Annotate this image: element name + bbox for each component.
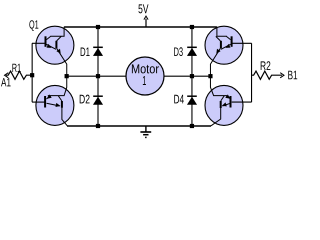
node B1 [288,71,297,80]
transistor top-right darlington (mirrored) [205,26,252,76]
junction dot motor row right transistor [208,74,212,78]
transistor bottom-right darlington (mirrored) [205,76,252,126]
label Q1 [29,20,38,31]
ground [140,126,151,137]
wire motor row right [164,75,211,77]
junction dot rail/D3 [190,25,194,29]
junction dot R1 tie [30,73,34,77]
junction dot motor row D1 [96,74,100,78]
diode D2 [80,95,103,105]
wire bottom rail 0V [67,125,211,127]
resistor R2 [251,61,284,79]
wire top rail 5V [64,26,217,28]
wire motor row left [67,75,127,77]
transistor Q1 (top-left darlington) [32,26,74,76]
junction dot bottom rail D2 [96,124,100,128]
junction dot rail/D1 [96,25,100,29]
diode D4 [174,95,197,105]
wire right base tie [251,43,253,102]
junction dot motor row D3 [190,74,194,78]
node A1 [1,78,11,86]
motor M1 [126,57,164,95]
diode D1 [81,47,103,56]
junction dot bottom rail D4 [190,124,194,128]
transistor bottom-left darlington [32,76,74,126]
junction dot motor row left transistor [65,74,69,78]
power 5V terminal [138,4,148,27]
wire left base tie [31,43,33,102]
diode D3 [174,47,197,56]
wire diode branch D3 D4 [191,27,193,126]
resistor R1 [5,64,33,80]
wire diode branch D1 D2 [97,27,99,126]
